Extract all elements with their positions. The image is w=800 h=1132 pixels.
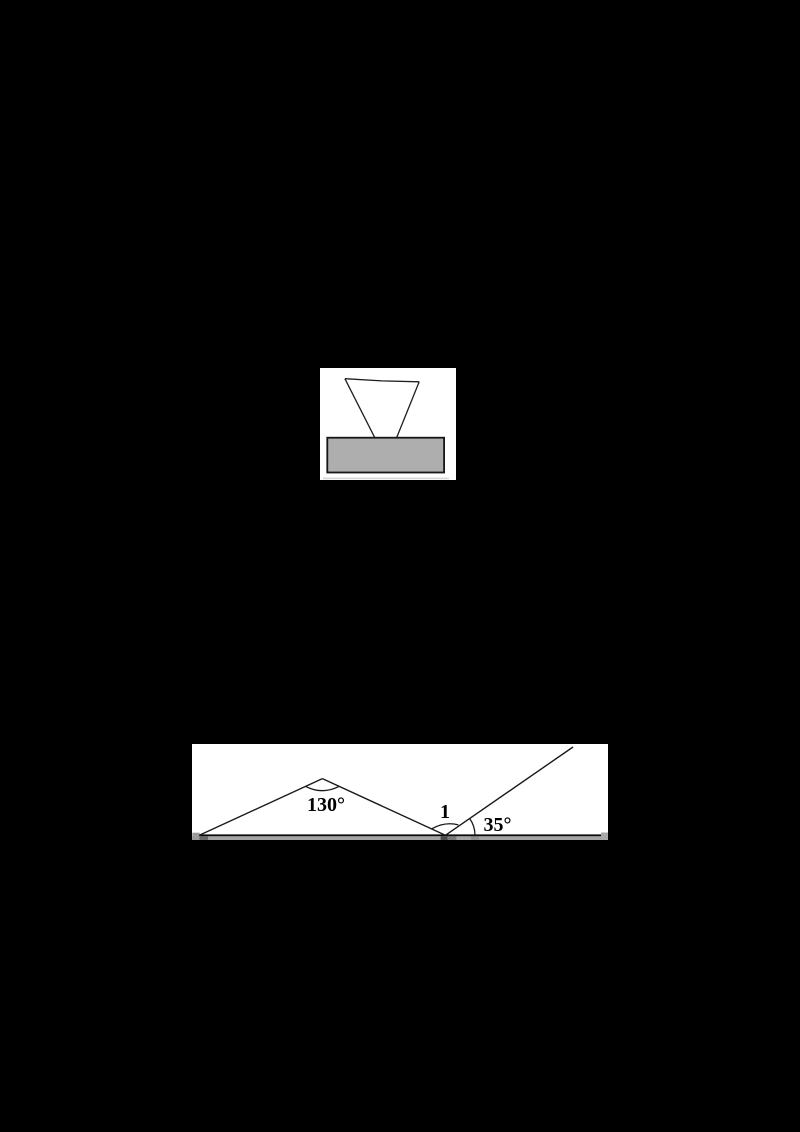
ground medium patch 2 [471,836,479,840]
figure panel 2: angles 130 / 1 / 35 [192,744,608,841]
arc of 35-degree angle [470,818,475,835]
funnel top edge [345,379,419,382]
ascending 35-degree ray [445,747,573,835]
baseline [199,834,601,836]
faint bottom streak [323,478,449,480]
svg-text:1: 1 [440,801,450,823]
svg-text:35°: 35° [484,814,512,836]
ground gray bar [192,836,608,840]
funnel right side [397,382,420,438]
ground left dark segment [200,836,209,840]
funnel left side [345,379,375,438]
right slope line [322,778,445,835]
ground right cap [601,832,608,840]
left slope line [199,778,322,835]
ground left cap [192,832,199,840]
arc of 130-degree angle [306,786,340,790]
arc of angle 1 [432,823,459,828]
ground medium patch right of vertex [448,836,457,840]
gray block [327,438,444,473]
figure panel 1: funnel on block [320,368,456,480]
ground dark patch under vertex [441,836,448,840]
svg-text:130°: 130° [307,793,345,815]
